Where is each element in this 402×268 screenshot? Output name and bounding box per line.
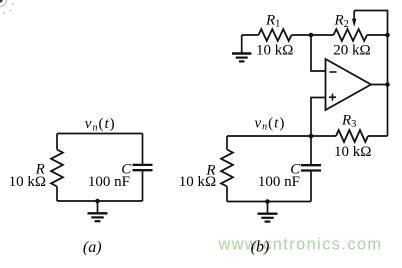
svg-text:20 kΩ: 20 kΩ	[333, 42, 370, 58]
svg-text:100 nF: 100 nF	[258, 174, 300, 190]
op-amp plus pin mark	[329, 94, 336, 101]
junction dot (a)	[95, 199, 100, 204]
R2 wiper arrow	[352, 11, 356, 28]
wire noninverting input down to vn node	[311, 98, 326, 137]
wire right lower stub (a)	[142, 170, 144, 201]
resistor R2 (adjustable)	[334, 29, 368, 41]
wire op-amp output	[371, 84, 388, 86]
svg-text:10 kΩ: 10 kΩ	[9, 174, 46, 190]
svg-text:(a): (a)	[83, 239, 102, 256]
svg-text:10 kΩ: 10 kΩ	[179, 174, 216, 190]
wire ground to R1	[242, 34, 259, 36]
resistor R3	[336, 130, 368, 142]
wire bottom (a)	[57, 200, 143, 202]
capacitor C (b)	[301, 165, 321, 170]
wire bottom (b RC)	[227, 201, 311, 203]
wire top (b RC)	[227, 135, 311, 137]
wire left upper stub (a)	[56, 134, 58, 150]
ground (b RC)	[258, 202, 278, 222]
wire R1 to node A	[292, 34, 312, 36]
svg-text:www.cntronics.com: www.cntronics.com	[218, 235, 383, 253]
wire R3 to right rail	[368, 135, 388, 137]
ground (b input)	[232, 35, 251, 61]
svg-text:10 kΩ: 10 kΩ	[334, 144, 371, 160]
output junction dot	[385, 82, 390, 87]
svg-text:10 kΩ: 10 kΩ	[256, 42, 293, 58]
wire cap upper stub (b RC)	[310, 136, 312, 165]
svg-text:100 nF: 100 nF	[88, 174, 130, 190]
R2 wiper loop wire	[354, 11, 387, 36]
wire right upper stub (a)	[142, 134, 144, 165]
wire node A down to inverting input	[311, 35, 326, 71]
ground (a)	[88, 201, 108, 221]
junction dot R2 right	[385, 33, 390, 38]
wire top (a)	[57, 133, 143, 135]
svg-text:vn(t): vn(t)	[254, 115, 285, 132]
junction dot (b ground)	[265, 199, 270, 204]
wire R2 to right rail	[367, 34, 388, 36]
node A junction dot	[309, 33, 314, 38]
wire node A to R2	[311, 34, 334, 36]
resistor R1	[259, 29, 292, 41]
wire cap lower stub (b RC)	[310, 171, 312, 202]
resistor R (a)	[51, 150, 63, 187]
wire vn node to R3	[311, 135, 336, 137]
watermark logo fragment	[0, 0, 14, 14]
op-amp U1	[326, 59, 372, 110]
wire right rail	[387, 35, 389, 136]
svg-text:(b): (b)	[251, 238, 270, 255]
wire left lower stub (b RC)	[226, 187, 228, 202]
capacitor C (a)	[133, 165, 153, 170]
resistor R (b)	[221, 150, 233, 187]
wire left lower stub (a)	[56, 187, 58, 202]
svg-text:vn(t): vn(t)	[85, 116, 116, 133]
op-amp minus pin mark	[330, 71, 337, 73]
junction dot vn node	[309, 134, 314, 139]
wire left upper stub (b RC)	[226, 136, 228, 150]
